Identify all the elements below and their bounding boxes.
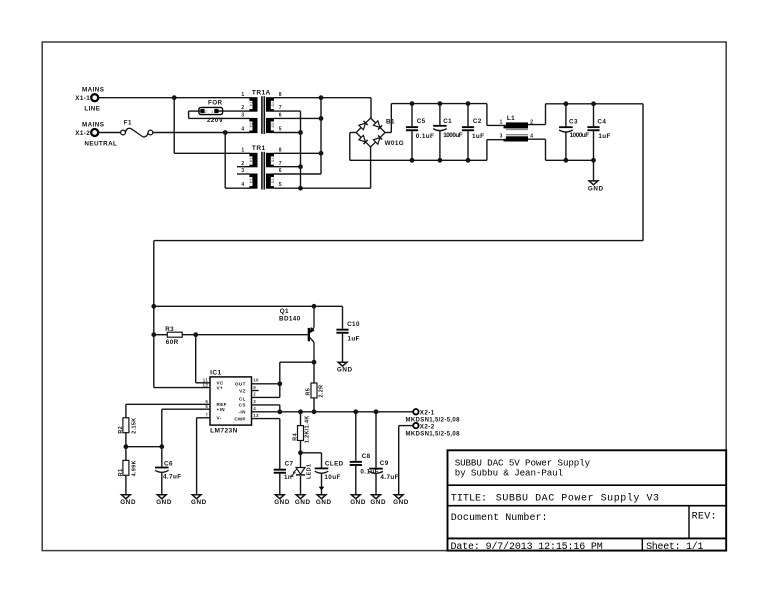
- svg-text:Document Number:: Document Number:: [451, 512, 548, 524]
- svg-text:V+: V+: [217, 385, 224, 390]
- svg-text:P2: P2: [249, 122, 253, 127]
- svg-text:X1-1: X1-1: [75, 95, 90, 102]
- title block: [448, 450, 727, 553]
- capacitor C2: [462, 126, 474, 131]
- svg-text:C2: C2: [473, 118, 482, 125]
- svg-text:F1: F1: [124, 119, 132, 126]
- svg-text:1.2K/1.4K: 1.2K/1.4K: [304, 415, 310, 443]
- wire bridge minus down: [349, 133, 351, 161]
- resistor R4: [298, 426, 304, 441]
- wire C1 top: [439, 104, 441, 125]
- wire LINE to TR1 pin1: [174, 152, 250, 154]
- junction R3 feed: [151, 332, 156, 337]
- ground CLED: [316, 495, 332, 506]
- svg-text:OUT: OUT: [235, 381, 246, 386]
- junction Q1 collector: [312, 360, 317, 365]
- wire C10 bottom: [342, 334, 344, 362]
- svg-text:12: 12: [203, 382, 209, 387]
- svg-text:CLED: CLED: [325, 460, 344, 467]
- wire LINE to TR1A pin1: [99, 97, 250, 99]
- wire C9 to GND: [375, 474, 377, 495]
- svg-text:1000uF: 1000uF: [443, 132, 463, 139]
- bridge rectifier B1 W01G: [356, 118, 404, 147]
- svg-text:4: 4: [241, 127, 244, 133]
- wire REF down: [125, 404, 127, 418]
- wire collector to OUT: [280, 361, 314, 363]
- svg-text:1uF: 1uF: [598, 133, 610, 140]
- wire jumper to TR1A pin2: [219, 110, 250, 112]
- wire NEUTRAL to TR1 pin4: [225, 187, 250, 189]
- wire to GND filter: [593, 160, 595, 180]
- svg-text:C9: C9: [380, 460, 389, 467]
- svg-text:NEUTRAL: NEUTRAL: [84, 140, 117, 147]
- svg-text:REV:: REV:: [692, 512, 717, 523]
- svg-text:2.2R: 2.2R: [319, 385, 325, 398]
- svg-text:GND: GND: [588, 185, 604, 192]
- svg-text:1uF: 1uF: [348, 335, 360, 342]
- wire V- to GND: [196, 418, 198, 495]
- wire CS to rail: [279, 405, 281, 412]
- wire R4 to LED: [300, 441, 302, 453]
- resistor R1: [123, 460, 129, 475]
- wire CL pin2: [252, 396, 280, 398]
- svg-text:C4: C4: [597, 118, 606, 125]
- svg-text:3: 3: [241, 168, 244, 174]
- connector X1-2: [75, 121, 117, 147]
- svg-text:C10: C10: [347, 321, 360, 328]
- svg-text:0.1uF: 0.1uF: [416, 133, 434, 140]
- wire C1 bottom: [439, 131, 441, 160]
- svg-text:C1: C1: [443, 118, 452, 125]
- junction bottom rail x412.0: [410, 158, 415, 163]
- wire LINE vertical branch: [173, 98, 175, 154]
- wire jumper to TR1A pin3: [189, 117, 250, 119]
- svg-text:10: 10: [253, 378, 259, 383]
- wire R2 to junction: [125, 433, 127, 447]
- capacitor C5: [406, 126, 418, 131]
- svg-text:1uF: 1uF: [472, 133, 484, 140]
- junction output rail x314.0: [312, 409, 317, 414]
- junction C3 top: [564, 101, 569, 106]
- wire C8 to GND: [355, 466, 357, 495]
- svg-text:60R: 60R: [166, 339, 179, 346]
- junction bottom rail x439.9: [438, 158, 443, 163]
- wire TR1 pin2 stub: [237, 166, 250, 168]
- svg-text:-IN: -IN: [238, 410, 246, 415]
- LED LED1: [291, 453, 312, 479]
- ground C8: [350, 495, 366, 506]
- wire L1 pin2 up: [545, 104, 547, 125]
- wire rail to R4: [300, 412, 302, 426]
- svg-text:1: 1: [500, 120, 503, 126]
- wire LED1 to GND: [300, 476, 302, 495]
- junction arrow CLED: [319, 487, 325, 491]
- junction output rail x300.5: [298, 409, 303, 414]
- svg-text:5: 5: [279, 182, 282, 188]
- junction OUT CL: [277, 381, 282, 386]
- inductor L1: [500, 115, 534, 142]
- svg-text:7: 7: [279, 161, 282, 167]
- svg-text:4: 4: [253, 406, 256, 411]
- junction NEUTRAL branch: [223, 130, 228, 135]
- wire TR1 pin7: [274, 166, 301, 168]
- svg-text:L1: L1: [507, 115, 515, 122]
- transformer TR1: [241, 145, 282, 190]
- svg-text:SUBBU DAC Power Supply V3: SUBBU DAC Power Supply V3: [496, 492, 660, 504]
- svg-text:GND: GND: [337, 367, 353, 374]
- svg-text:Sheet: 1/1: Sheet: 1/1: [646, 541, 703, 553]
- wire AC2 vertical: [300, 111, 302, 188]
- svg-text:2.15K: 2.15K: [131, 417, 137, 433]
- svg-text:R1: R1: [118, 468, 124, 476]
- svg-text:3: 3: [253, 399, 256, 404]
- svg-text:BD140: BD140: [279, 315, 301, 322]
- wire C2 bottom: [467, 131, 469, 160]
- ground C6: [156, 495, 172, 506]
- wire output rail -IN pin4: [252, 411, 414, 413]
- svg-text:S2: S2: [271, 178, 275, 183]
- wire jumper left: [189, 110, 201, 112]
- svg-text:C7: C7: [285, 460, 294, 467]
- fuse F1: [121, 119, 153, 137]
- wire VCC top rail 2: [546, 103, 644, 105]
- svg-text:W01G: W01G: [385, 140, 404, 147]
- wire OUT pin10: [252, 383, 280, 385]
- connector X1-1: [75, 87, 104, 113]
- wire CS pin3: [252, 404, 280, 406]
- svg-text:8: 8: [279, 92, 282, 98]
- svg-text:X1-2: X1-2: [75, 130, 90, 137]
- wire to IC1 V+ pin12: [154, 387, 210, 389]
- wire TR1A pin7: [274, 110, 301, 112]
- junction C4 bottom: [591, 158, 596, 163]
- svg-text:S1: S1: [271, 157, 275, 162]
- svg-text:1: 1: [211, 110, 213, 114]
- wire NEUTRAL to TR1A pin4: [153, 132, 250, 134]
- junction AC1 top: [319, 95, 324, 100]
- wire CMP pin13: [252, 418, 280, 420]
- wire C6 top: [161, 447, 163, 467]
- svg-text:7: 7: [279, 105, 282, 111]
- resistor R2: [123, 418, 129, 433]
- svg-text:P1: P1: [249, 101, 253, 106]
- ground X2-2: [393, 495, 409, 506]
- svg-text:1: 1: [241, 147, 244, 153]
- svg-text:GND: GND: [350, 499, 366, 506]
- wire C8 top: [355, 412, 357, 461]
- svg-text:3: 3: [241, 113, 244, 119]
- svg-text:+IN: +IN: [217, 407, 226, 412]
- svg-text:P1: P1: [249, 157, 253, 162]
- junction R3 base VC: [193, 332, 198, 337]
- junction bottom rail x468.0: [466, 158, 471, 163]
- svg-text:CMP: CMP: [234, 416, 245, 421]
- svg-text:X2-1: X2-1: [420, 410, 435, 417]
- wire +IN down: [161, 409, 163, 447]
- wire to L1 pin3: [487, 139, 506, 141]
- capacitor C3: [559, 126, 573, 132]
- svg-text:TR1: TR1: [252, 145, 266, 152]
- svg-text:GND: GND: [120, 499, 136, 506]
- svg-text:Date: 9/7/2013 12:15:16 PM: Date: 9/7/2013 12:15:16 PM: [451, 541, 603, 553]
- wire bottom rail to L1 pin3: [486, 140, 488, 161]
- wire bridge AC top: [370, 98, 372, 118]
- wire REF pin6: [126, 403, 210, 405]
- svg-text:13: 13: [253, 413, 259, 418]
- wire R5 to rail: [313, 398, 315, 412]
- wire R1 to GND: [125, 475, 127, 494]
- wire TR1A pin6: [274, 117, 321, 119]
- svg-text:LED1: LED1: [307, 464, 313, 479]
- wire C3 top: [565, 104, 567, 127]
- wire X2-2: [399, 425, 414, 427]
- svg-text:GND: GND: [156, 499, 172, 506]
- wire V- pin7: [197, 417, 210, 419]
- wire bridge plus up: [390, 104, 392, 133]
- junction R4 LED CLED: [298, 450, 303, 455]
- ground V-: [191, 495, 207, 506]
- svg-text:LM723N: LM723N: [210, 427, 238, 434]
- wire bridge AC bottom: [370, 147, 372, 188]
- svg-text:R2: R2: [118, 426, 124, 434]
- svg-text:2: 2: [205, 110, 207, 114]
- junction top rail x412.0: [410, 101, 415, 106]
- svg-text:GND: GND: [393, 499, 409, 506]
- wire CMP to C7: [279, 419, 281, 469]
- svg-text:V-: V-: [217, 416, 222, 421]
- wire C3 bottom: [565, 132, 567, 160]
- ground C7: [274, 495, 290, 506]
- wire VRAW top rail: [391, 103, 487, 105]
- svg-text:1000uF: 1000uF: [570, 132, 590, 139]
- wire TR1A pin8 to bridge: [274, 97, 371, 99]
- schematic frame border: [42, 42, 726, 551]
- junction output rail x355.8: [353, 409, 358, 414]
- wire VCC horizontal: [154, 240, 643, 242]
- svg-text:4.99K: 4.99K: [131, 460, 137, 476]
- svg-text:6: 6: [279, 168, 282, 174]
- wire X1-2 to F1: [99, 132, 121, 134]
- svg-text:C5: C5: [417, 118, 426, 125]
- junction AC1 pin8 TR1: [319, 151, 324, 156]
- wire VCC left drop: [153, 241, 155, 388]
- svg-text:9: 9: [253, 385, 256, 390]
- ground C10: [337, 362, 353, 373]
- wire C10 top: [342, 306, 344, 328]
- junction AC1 pin6: [319, 116, 324, 121]
- svg-text:8: 8: [279, 147, 282, 153]
- svg-text:GND: GND: [295, 499, 311, 506]
- svg-text:4.7uF: 4.7uF: [163, 474, 181, 481]
- wire to L1 pin1: [487, 124, 506, 126]
- junction output rail x376.0: [374, 409, 379, 414]
- svg-text:TR1A: TR1A: [252, 89, 271, 96]
- connector X2-2: [406, 423, 461, 437]
- junction R2 R1: [124, 444, 129, 449]
- svg-text:GND: GND: [316, 499, 332, 506]
- wire to IC1 VC pin11: [195, 335, 197, 383]
- capacitor C1: [433, 125, 447, 131]
- wire to CLED: [301, 452, 322, 454]
- svg-text:2: 2: [241, 161, 244, 167]
- capacitor C6: [155, 467, 169, 473]
- wire CLED to GND: [321, 474, 323, 495]
- wire TR1 pin8: [274, 152, 321, 154]
- svg-text:7: 7: [205, 412, 208, 417]
- wire TR1 pin3 stub: [237, 173, 250, 175]
- wire C4 top: [593, 104, 595, 126]
- capacitor C10: [336, 329, 348, 334]
- svg-text:MKDSN1,5/2-5,08: MKDSN1,5/2-5,08: [406, 431, 461, 437]
- svg-text:LINE: LINE: [84, 106, 100, 113]
- transformer TR1A: [241, 89, 282, 133]
- svg-text:MAINS: MAINS: [82, 87, 104, 94]
- svg-text:GND: GND: [370, 499, 386, 506]
- junction C3 bottom: [564, 158, 569, 163]
- ground LED1: [295, 495, 311, 506]
- svg-text:GND: GND: [191, 499, 207, 506]
- wire to R1: [125, 447, 127, 461]
- wire C5 top: [411, 104, 413, 127]
- ground C9: [370, 495, 386, 506]
- wire to R3: [154, 334, 168, 336]
- capacitor C9: [369, 468, 383, 474]
- junction C4 top: [591, 101, 596, 106]
- junction output rail x279.8: [277, 409, 282, 414]
- junction LINE branch: [172, 95, 177, 100]
- wire X2-2 to GND: [398, 426, 400, 495]
- wire bridge minus out: [350, 132, 356, 134]
- wire CLED top: [321, 453, 323, 468]
- junction Q1 emitter: [312, 304, 317, 309]
- svg-text:R3: R3: [165, 326, 174, 333]
- wire TR1 pin6: [274, 173, 321, 175]
- svg-text:FOR: FOR: [208, 100, 223, 107]
- wire L1 pin4 down: [545, 139, 547, 160]
- capacitor C8: [350, 461, 362, 466]
- svg-text:2: 2: [253, 392, 256, 397]
- svg-text:by Subbu & Jean-Paul: by Subbu & Jean-Paul: [455, 468, 563, 479]
- wire VCC right drop: [642, 104, 644, 241]
- wire to LED1: [300, 453, 302, 468]
- connector X2-1: [406, 409, 461, 424]
- junction top rail x468.0: [466, 101, 471, 106]
- wire OUT riser: [279, 362, 281, 397]
- wire +IN pin5: [162, 408, 210, 410]
- resistor R3: [167, 332, 182, 337]
- wire C6 to GND: [161, 473, 163, 495]
- svg-text:2: 2: [241, 105, 244, 111]
- wire TR1A pin5: [274, 132, 301, 134]
- capacitor CLED: [315, 468, 329, 474]
- wire GNDB bottom rail: [350, 159, 487, 161]
- svg-text:TITLE:: TITLE:: [451, 493, 487, 504]
- capacitor C4: [587, 126, 599, 131]
- wire TR1 pin5 to bridge: [274, 187, 371, 189]
- capacitor C7: [274, 469, 286, 474]
- wire C4 bottom: [593, 131, 595, 160]
- svg-text:3: 3: [500, 134, 503, 140]
- svg-text:S2: S2: [271, 123, 275, 128]
- svg-text:4.7uF: 4.7uF: [380, 474, 398, 481]
- svg-text:R5: R5: [306, 388, 312, 396]
- wire VZ pin9 stub: [252, 390, 259, 392]
- junction top rail x439.9: [438, 101, 443, 106]
- svg-text:Q1: Q1: [280, 308, 289, 315]
- svg-text:R4: R4: [293, 433, 299, 441]
- svg-text:C6: C6: [164, 460, 173, 467]
- wire C9 top: [375, 412, 377, 468]
- wire emitter rail: [154, 305, 343, 307]
- svg-text:C8: C8: [362, 453, 371, 460]
- wire AC1 vertical: [320, 98, 322, 174]
- wire bridge plus out: [385, 132, 391, 134]
- junction AC2 pin7 TR1: [298, 164, 303, 169]
- svg-text:CL: CL: [239, 396, 246, 401]
- wire top rail to L1 pin1: [486, 104, 488, 126]
- svg-text:P2: P2: [249, 178, 253, 183]
- junction AC2 pin5 TR1: [298, 186, 303, 191]
- svg-text:4: 4: [241, 182, 244, 188]
- wire R3 to Q1 base: [182, 334, 308, 336]
- wire jumper down: [188, 111, 190, 118]
- svg-text:10uF: 10uF: [324, 474, 340, 481]
- svg-text:VZ: VZ: [239, 388, 246, 393]
- svg-text:1: 1: [241, 92, 244, 98]
- svg-text:GND: GND: [274, 499, 290, 506]
- junction C6 +IN: [159, 444, 164, 449]
- wire L1 pin4 out: [528, 138, 546, 140]
- wire C7 to GND: [279, 474, 281, 495]
- op-amp regulator IC1 LM723N: [203, 369, 260, 434]
- transistor Q1 BD140: [279, 306, 314, 362]
- svg-text:S1: S1: [271, 102, 275, 107]
- junction AC2 pin5: [298, 130, 303, 135]
- svg-text:6: 6: [279, 113, 282, 119]
- svg-text:MAINS: MAINS: [82, 121, 104, 128]
- wire C2 top: [467, 104, 469, 127]
- svg-text:C3: C3: [569, 118, 578, 125]
- svg-text:X2-2: X2-2: [420, 423, 435, 430]
- svg-text:1n: 1n: [284, 474, 292, 481]
- svg-text:IC1: IC1: [210, 369, 221, 376]
- wire collector to R5: [313, 362, 315, 383]
- wire IC1 pin11: [196, 382, 210, 384]
- wire NEUTRAL vertical branch: [224, 133, 226, 189]
- svg-text:B1: B1: [386, 119, 395, 126]
- wire C5 bottom: [411, 131, 413, 160]
- jumper FOR 220V: [199, 100, 224, 125]
- ground R1: [120, 495, 136, 506]
- wire L1 pin2 out: [528, 124, 546, 126]
- ground filter: [588, 181, 604, 192]
- wire divider to C6: [126, 446, 162, 448]
- svg-text:CS: CS: [239, 403, 246, 408]
- resistor R5: [311, 383, 317, 398]
- svg-text:5: 5: [279, 127, 282, 133]
- junction Q1 feed: [151, 304, 156, 309]
- wire bottom rail 2: [546, 159, 594, 161]
